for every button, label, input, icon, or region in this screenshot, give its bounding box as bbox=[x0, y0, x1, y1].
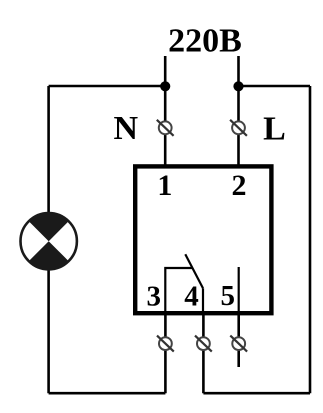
node L junction dot bbox=[233, 81, 243, 91]
terminal screw L (above pin 2) bbox=[230, 120, 247, 136]
terminal screw 4 bbox=[195, 336, 212, 352]
svg-text:N: N bbox=[114, 110, 139, 147]
svg-text:L: L bbox=[263, 110, 286, 147]
switch moving arm (pole 4, closed to 3) bbox=[185, 254, 203, 288]
svg-text:3: 3 bbox=[147, 281, 162, 313]
wire bottom rail right (terminal 4 to right rail) bbox=[203, 392, 310, 395]
terminal screw N (above pin 1) bbox=[157, 120, 174, 136]
switch fixed contact 5 stub bbox=[238, 267, 240, 312]
relay box U1 bbox=[135, 166, 271, 313]
wire top rail left (node N to left rail) bbox=[49, 85, 166, 88]
svg-text:220В: 220В bbox=[168, 23, 242, 60]
switch fixed contact 3 (L-shape) bbox=[165, 268, 192, 312]
wire N vertical drop (supply to terminal 1) bbox=[164, 56, 167, 167]
svg-text:2: 2 bbox=[232, 169, 247, 202]
wire top rail right (node L to right rail) bbox=[239, 85, 311, 88]
switch pole 4 stub bbox=[202, 288, 204, 312]
svg-text:1: 1 bbox=[157, 169, 172, 202]
wire left rail vertical (to lamp) bbox=[47, 86, 50, 393]
terminal screw 5 bbox=[230, 336, 247, 352]
wire right rail vertical (L to bottom) bbox=[309, 86, 312, 393]
wire L vertical drop (supply to terminal 2) bbox=[237, 56, 240, 167]
svg-text:5: 5 bbox=[221, 280, 236, 312]
wire terminal 3 drop bbox=[164, 314, 167, 394]
wire bottom rail left (lamp to terminal 3) bbox=[49, 392, 166, 395]
node N junction dot bbox=[160, 81, 170, 91]
wire terminal 4 drop bbox=[202, 314, 205, 394]
svg-text:4: 4 bbox=[184, 280, 199, 312]
lamp EL1 bbox=[21, 212, 77, 270]
wire terminal 5 stub bbox=[237, 314, 240, 368]
terminal screw 3 bbox=[157, 336, 174, 352]
